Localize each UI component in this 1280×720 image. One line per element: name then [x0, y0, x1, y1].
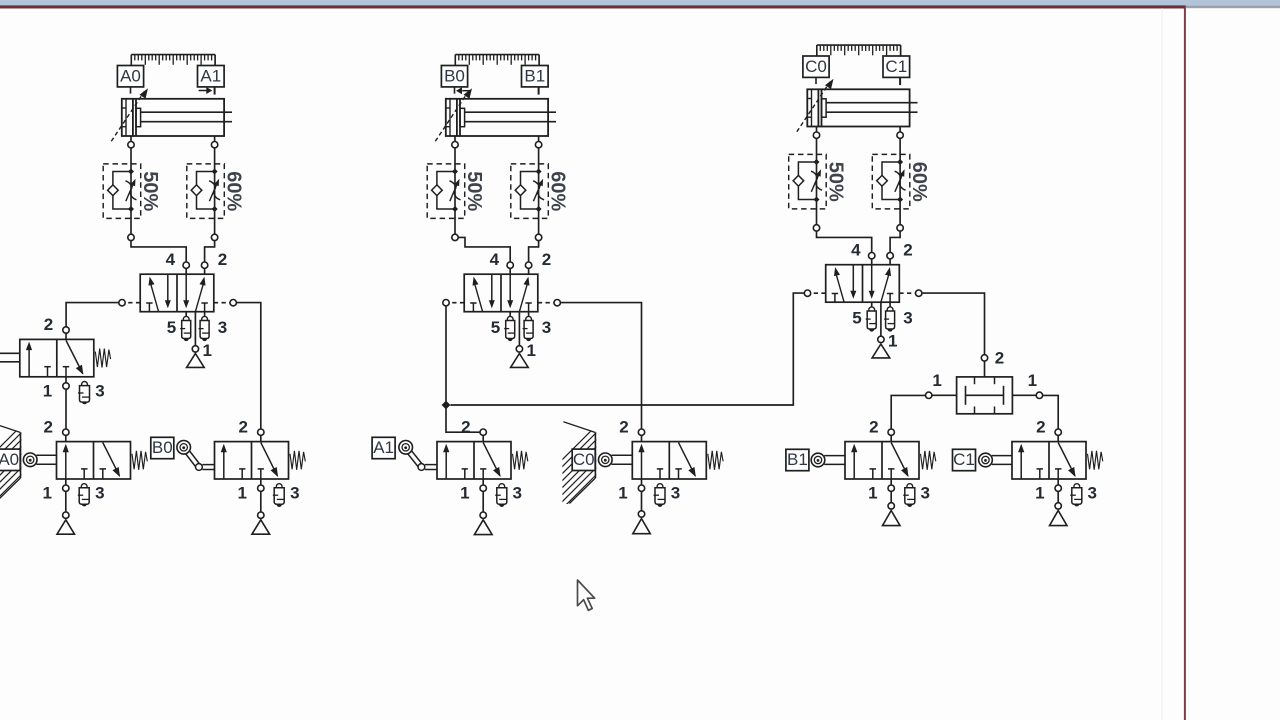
svg-text:60%: 60%: [908, 162, 930, 202]
wire flow control B left to valve port 4: [458, 237, 510, 262]
svg-text:3: 3: [671, 484, 680, 503]
wire two-pressure valve left input to valve B1 output: [891, 395, 925, 429]
svg-text:2: 2: [43, 417, 52, 436]
pilot wire: valve A right pilot to valve B0 output: [236, 303, 260, 430]
svg-text:B0: B0: [444, 66, 465, 85]
svg-text:3: 3: [1087, 484, 1096, 503]
svg-text:3: 3: [512, 484, 521, 503]
svg-text:3: 3: [290, 484, 299, 503]
svg-text:B1: B1: [524, 66, 545, 85]
window border maroon top: [0, 5, 1186, 8]
label box B1: [786, 449, 809, 470]
svg-text:3: 3: [542, 318, 551, 337]
wire cylinder B right port to flow control: [538, 148, 540, 164]
wire flow control A left to valve port 4: [131, 241, 186, 263]
connection node below left flow control B: [454, 218, 456, 234]
svg-text:1: 1: [43, 381, 52, 400]
cylinder A with ruler and sensors A0/A1: [111, 55, 232, 148]
label box A0: [0, 449, 20, 470]
window border maroon right: [1184, 8, 1186, 720]
svg-text:4: 4: [166, 250, 176, 269]
flow control valve C left 50%: [789, 154, 847, 210]
svg-text:1: 1: [460, 484, 469, 503]
svg-text:50%: 50%: [824, 162, 846, 202]
3/2 roller lever valve A1: [399, 417, 528, 534]
svg-text:4: 4: [851, 241, 861, 260]
wire flow control A right to valve port 2: [205, 241, 215, 263]
svg-text:1: 1: [1028, 371, 1037, 390]
5/2-way double pilot valve B: [443, 250, 561, 367]
3/2 roller valve C0 (actuated): [599, 417, 724, 533]
svg-text:1: 1: [526, 341, 535, 360]
svg-text:1: 1: [932, 371, 941, 390]
wire junction J1 to valve A1 output: [446, 405, 480, 432]
svg-text:B1: B1: [787, 450, 808, 469]
wire cylinder C left port to flow control: [816, 138, 818, 154]
svg-text:60%: 60%: [223, 171, 245, 211]
svg-text:2: 2: [1036, 417, 1045, 436]
svg-text:1: 1: [42, 484, 51, 503]
bus wire junction J1 to valve C left pilot: [450, 293, 804, 405]
svg-text:3: 3: [95, 484, 104, 503]
3/2 roller valve A0 (actuated): [23, 417, 147, 534]
svg-text:C0: C0: [573, 450, 595, 469]
wire cylinder A right port to flow control: [214, 148, 216, 164]
pilot wire: valve B right pilot to valve C0 output: [560, 303, 641, 430]
3/2 roller valve C1: [979, 417, 1103, 525]
svg-text:C1: C1: [885, 57, 907, 76]
svg-text:2: 2: [542, 250, 551, 269]
svg-text:A0: A0: [0, 450, 19, 469]
svg-text:2: 2: [218, 250, 227, 269]
faint page edge line: [1162, 8, 1163, 720]
svg-text:50%: 50%: [139, 171, 161, 211]
5/2-way double pilot valve A: [119, 250, 237, 367]
svg-text:2: 2: [461, 417, 470, 436]
svg-text:5: 5: [491, 318, 500, 337]
connection node below left flow control C: [816, 209, 818, 225]
svg-text:2: 2: [619, 417, 628, 436]
svg-text:3: 3: [218, 318, 227, 337]
flow control valve A left 50%: [103, 163, 161, 219]
two-pressure valve (AND) V7: [926, 349, 1043, 414]
flow control valve B left 50%: [427, 163, 485, 219]
wire flow control C left to valve port 4: [817, 231, 872, 253]
connection node below right flow control B: [538, 218, 540, 234]
pilot wire: valve A left pilot to start valve output: [66, 303, 119, 328]
pilot wire: valve B left pilot down to junction: [445, 306, 447, 405]
3/2 roller valve B1: [811, 417, 936, 525]
3/2 roller lever valve B0: [177, 417, 305, 534]
label box C1: [953, 449, 976, 470]
mouse cursor: [578, 580, 595, 610]
svg-text:1: 1: [888, 332, 897, 351]
toolbar strip top: [0, 0, 1280, 6]
svg-text:3: 3: [903, 309, 912, 328]
wire two-pressure valve right input to valve C1 output: [1043, 395, 1059, 429]
flow control valve A right 60%: [187, 163, 245, 219]
svg-text:1: 1: [1035, 484, 1044, 503]
wire cylinder B left port to flow control: [454, 148, 456, 164]
3/2 start valve V0 (plunger): [0, 315, 111, 404]
pilot wire: valve C right pilot to two-pressure valve port 2: [922, 293, 985, 355]
svg-text:C1: C1: [953, 450, 975, 469]
svg-text:2: 2: [238, 417, 247, 436]
svg-text:4: 4: [490, 250, 500, 269]
svg-text:50%: 50%: [463, 171, 485, 211]
connection node below right flow control C: [899, 209, 901, 225]
svg-text:3: 3: [920, 484, 929, 503]
svg-text:A1: A1: [373, 438, 394, 457]
flow control valve C right 60%: [872, 154, 930, 210]
svg-text:2: 2: [995, 349, 1004, 368]
wire cylinder A left port to flow control: [130, 148, 132, 164]
svg-text:2: 2: [869, 417, 878, 436]
svg-text:C0: C0: [805, 57, 827, 76]
label box C0: [572, 449, 595, 470]
svg-text:5: 5: [167, 318, 176, 337]
wire flow control C right to valve port 2: [890, 231, 900, 253]
svg-text:1: 1: [618, 484, 627, 503]
svg-text:3: 3: [95, 381, 104, 400]
flow control valve B right 60%: [511, 163, 569, 219]
wire start valve output port1 to valve A0 port 2: [65, 390, 67, 429]
label box B0: [151, 437, 174, 458]
svg-text:1: 1: [202, 341, 211, 360]
junction node J1: [442, 401, 451, 410]
label box A1: [372, 437, 395, 458]
connection node below left flow control A: [130, 218, 132, 234]
svg-text:5: 5: [852, 309, 861, 328]
wire cylinder C right port to flow control: [899, 138, 901, 154]
svg-text:A1: A1: [200, 66, 221, 85]
svg-text:2: 2: [44, 315, 53, 334]
svg-text:B0: B0: [152, 438, 173, 457]
svg-text:2: 2: [903, 241, 912, 260]
svg-text:1: 1: [237, 484, 246, 503]
cylinder C with ruler and sensors C0/C1: [797, 45, 918, 138]
cylinder B with ruler and sensors B0/B1: [435, 55, 556, 148]
5/2-way double pilot valve C: [804, 241, 922, 358]
connection node below right flow control A: [214, 218, 216, 234]
wire flow control B right to valve port 2: [529, 241, 539, 263]
svg-text:60%: 60%: [547, 171, 569, 211]
svg-text:1: 1: [868, 484, 877, 503]
svg-text:A0: A0: [120, 66, 141, 85]
